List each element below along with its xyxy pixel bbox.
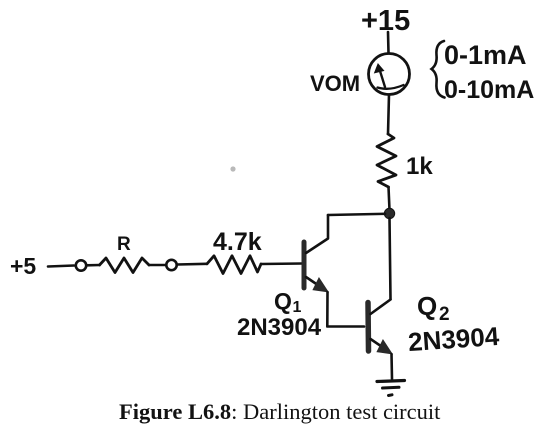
transistor Q2 2N3904 (368, 300, 392, 354)
svg-text:+5: +5 (10, 253, 36, 279)
junction node (384, 208, 394, 218)
label Q1 (274, 288, 302, 316)
wire 4.7k to Q1 base (261, 262, 302, 265)
wire R to terminal 2 (149, 264, 166, 267)
svg-text:R: R (117, 234, 131, 255)
svg-text:2N3904: 2N3904 (237, 314, 322, 341)
wire +5 to terminal (48, 266, 74, 267)
wire node to Q1 collector (horizontal) (328, 214, 385, 215)
svg-text:Figure L6.8: Darlington test c: Figure L6.8: Darlington test circuit (119, 399, 441, 424)
transistor Q1 2N3904 (304, 215, 328, 292)
terminal circle 2 (166, 260, 176, 270)
svg-text:4.7k: 4.7k (213, 228, 262, 256)
wire terminal 2 to resistor 4.7k (178, 262, 208, 265)
svg-text:+15: +15 (361, 5, 410, 37)
label VOM (310, 71, 360, 96)
svg-text:1k: 1k (406, 153, 433, 180)
wire terminal to resistor R (87, 264, 100, 267)
wire meter to resistor 1k (388, 95, 389, 135)
label R (117, 234, 131, 255)
node +5 input label (10, 253, 36, 279)
wire 1k to node (389, 187, 390, 210)
svg-text:2N3904: 2N3904 (407, 321, 500, 357)
label 4.7k (213, 228, 262, 256)
label 2N3904 (Q2) (407, 321, 500, 357)
brace for meter ranges (432, 41, 445, 98)
label 2N3904 (Q1) (237, 314, 322, 341)
label 1k (406, 153, 433, 180)
wire +15 to meter (387, 32, 390, 53)
svg-text:Q: Q (417, 291, 437, 321)
stray dot artifact (230, 166, 235, 171)
wire node down to Q2 collector (390, 218, 391, 299)
resistor 1k (377, 134, 396, 187)
resistor 4.7k (207, 256, 261, 274)
caption Figure L6.8 (119, 399, 441, 424)
svg-text:0-10mA: 0-10mA (444, 76, 534, 104)
svg-text:0-1mA: 0-1mA (444, 40, 527, 70)
terminal circle 1 (76, 260, 86, 270)
node +15 supply label (361, 5, 410, 37)
svg-text:Q: Q (274, 288, 292, 314)
resistor R (100, 258, 150, 273)
label Q2 (417, 291, 450, 325)
meter M1 (VOM) (369, 54, 410, 95)
wire Q1 emitter to Q2 base (327, 292, 364, 327)
svg-text:VOM: VOM (310, 71, 360, 96)
ground (377, 381, 405, 396)
svg-text:2: 2 (439, 304, 450, 325)
label 0-10mA (444, 76, 534, 104)
label 0-1mA (444, 40, 527, 70)
wire Q2 emitter to ground (390, 354, 393, 379)
